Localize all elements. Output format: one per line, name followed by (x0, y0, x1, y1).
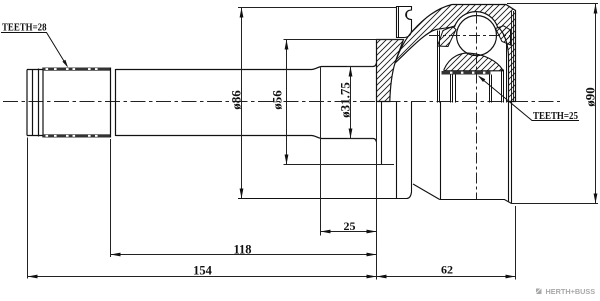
ball white disc (457, 16, 497, 56)
boot small end wedge (section) (377, 40, 404, 102)
dim 118 (111, 254, 377, 256)
main centerline (3, 101, 560, 103)
svg-text:62: 62 (441, 263, 453, 277)
svg-text:ø31.75: ø31.75 (338, 82, 353, 118)
dim d56 (284, 40, 405, 165)
ball centerline vertical (476, 13, 478, 200)
race hub lines (451, 70, 504, 103)
dim 154 (28, 276, 377, 278)
dim 62 (377, 276, 516, 278)
spline tooth gaps (46, 68, 98, 137)
housing wall inner lines (512, 11, 514, 102)
cage section right (496, 26, 511, 45)
boot clamp (397, 7, 412, 38)
dim 25 (321, 231, 377, 233)
svg-text:TEETH=25: TEETH=25 (533, 110, 578, 122)
spline end step (111, 68, 116, 138)
ball centerline horizontal (429, 35, 512, 37)
svg-text:ø56: ø56 (270, 90, 285, 110)
housing bell (section) (395, 5, 516, 102)
leader TEETH-25 (479, 77, 579, 121)
spline band bottom (43, 134, 111, 137)
clamp inner wall (399, 7, 410, 38)
svg-text:ø90: ø90 (583, 87, 598, 107)
svg-text:HERTH+BUSS: HERTH+BUSS (546, 287, 596, 296)
shaft tip ring (27, 70, 43, 136)
svg-text:ø86: ø86 (229, 90, 244, 110)
dim d86 (238, 8, 397, 199)
svg-text:154: 154 (193, 264, 213, 278)
race spline band (TEETH-25) (442, 71, 491, 75)
ball (457, 16, 497, 56)
lower profile: clamp area (238, 102, 412, 199)
svg-text:25: 25 (344, 219, 356, 233)
cage section left (438, 27, 457, 47)
shaft body (116, 70, 312, 136)
shaft flare to 31.75 (312, 63, 377, 142)
logo icon (536, 289, 542, 295)
svg-text:118: 118 (233, 243, 251, 257)
leader TEETH-28 (1, 33, 67, 67)
svg-text:TEETH=28: TEETH=28 (2, 22, 47, 34)
dim d90 (507, 4, 598, 204)
snap ring groove (39, 68, 44, 138)
spline band top (TEETH-28) (43, 68, 111, 71)
lower profile: housing bottom (440, 102, 512, 204)
extension lines bottom dims (28, 68, 516, 280)
dim d31.75 (347, 67, 373, 139)
inner race (section) (444, 53, 503, 71)
cage edge lines (438, 31, 507, 103)
lower profile: boot cone (413, 184, 440, 200)
